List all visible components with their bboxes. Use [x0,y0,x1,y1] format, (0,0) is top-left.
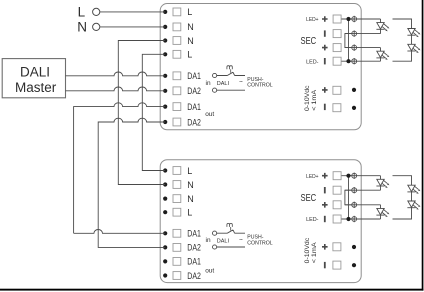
U1 polarity plus 0-10V [322,87,328,93]
U2 wire SEC- row2 [345,189,381,191]
U2 crimp terminal row2 [352,187,357,193]
LED string 4 wire top [393,176,412,186]
U2 polarity plus 0-10V [322,244,328,250]
U1 polarity minus SEC2 [324,58,326,64]
svg-text:SEC: SEC [301,35,317,47]
S2 wire and contact lever [217,230,245,233]
svg-text:SEC: SEC [301,192,317,204]
LED D5 [376,179,389,188]
frame right bar [422,0,424,291]
LED D2 string wire [380,48,382,62]
LED D7 [407,185,420,194]
svg-text:L: L [187,7,192,17]
svg-text:LED+: LED+ [306,174,319,180]
S2 push actuator stem [230,227,232,231]
svg-text:L: L [78,4,86,19]
U2 terminal N (pin 2) [163,180,194,190]
U2 polarity minus SEC1 [324,187,326,193]
S1 push actuator cap [227,66,232,70]
U1 junction LED- [346,59,350,63]
U1 terminal DA1 in [163,71,201,81]
S1 DA2 wire [217,89,245,91]
U2 crimp terminal row4 [352,216,357,222]
svg-text:DA2: DA2 [187,86,201,96]
svg-text:N: N [77,19,87,34]
U2 SEC square terminals [333,172,341,180]
LED D6 [376,208,389,217]
U2 terminal L (pin 1) [163,166,192,176]
U2 crimp terminal row1 [352,173,357,179]
S2 push actuator cap [227,223,232,227]
U2 bus wire rows1-4 [348,176,350,219]
LED D3-D4 link wire [411,35,413,44]
U1 wire LED+ row [342,18,381,20]
svg-text:DALI: DALI [20,64,50,79]
wire DALI DA1 U1 out to U2 in (hops) [74,103,166,234]
svg-text:L: L [187,166,192,176]
U1 terminal L loop-out (pin 4) [163,50,192,60]
U1 junction LED+ [346,17,350,21]
U1 terminal DA2 out [163,117,201,127]
LED string 2 wire bottom [393,51,412,61]
wire DALI DA2 U1 out to U2 in (hops) [98,118,165,247]
U2 polarity plus SEC2 [322,202,328,208]
U1 wire SEC- row2 [345,33,381,35]
U1 bracket wire rows2-3 [345,34,352,48]
S2 node DA2 [213,245,217,249]
LED D3 [407,29,420,38]
U2 crimp terminal row3 [352,202,357,208]
svg-text:~: ~ [239,236,243,243]
wire DALI DA1 master to U1 (hops) [66,72,166,76]
U2 bracket wire rows2-3 [345,190,352,205]
svg-text:DA2: DA2 [187,271,201,281]
frame bottom bar [0,289,423,291]
svg-text:Master: Master [15,80,57,95]
U1 polarity minus 0-10V [324,104,326,110]
U1 bus wire rows1-4 [348,19,350,61]
U1 polarity plus SEC1 [322,16,328,22]
U1 crimp terminal row2 [352,30,357,36]
U2 terminal L loop-out (pin 4) [163,208,192,218]
svg-text:in: in [206,237,211,244]
U2 wire LED+ row [342,175,381,177]
svg-text:~: ~ [239,79,243,86]
LED D1 string wire [380,19,382,34]
U2 0-10V dot terminals [352,245,356,249]
S1 node DA1 [213,73,217,77]
DALI Master box [2,59,65,98]
U1 terminal L (pin 1) [163,7,192,17]
svg-text:out: out [205,268,214,275]
LED D1 [376,23,389,32]
mains terminal N [93,23,100,30]
U2 terminal N loop-out (pin 3) [163,194,194,204]
U2 terminal DA2 in [163,243,201,253]
svg-text:N: N [187,22,194,32]
U1 DALI push-control switch S1 [213,66,273,93]
LED D5 string wire [380,176,382,191]
svg-text:DA1: DA1 [187,71,201,81]
U1 wire LED- row [342,60,381,62]
S1 push actuator stem [230,69,232,73]
svg-text:CONTROL: CONTROL [247,240,272,246]
U1 crimp terminal row3 [352,44,357,50]
U1 terminal DA1 out [163,102,201,112]
svg-text:CONTROL: CONTROL [247,83,272,89]
U2 terminal DA1 out [163,257,201,267]
U2 junction LED- [346,217,350,221]
U1 SEC square terminals [333,15,341,23]
svg-text:DA1: DA1 [187,102,201,112]
U1 wire SEC+ row3 [345,47,381,49]
LED driver U1 enclosure [160,4,361,130]
U1 terminal N loop-out (pin 3) [163,36,194,46]
U2 DALI push-control switch S2 [213,223,273,249]
S1 node DA2 [213,88,217,92]
svg-text:L: L [187,50,192,60]
U1 terminal DA2 in [163,86,201,96]
svg-text:N: N [187,180,194,190]
U2 0-10V square terminals [333,243,341,251]
svg-text:DA1: DA1 [187,229,201,239]
S1 wire and contact lever [217,72,245,75]
svg-text:in: in [206,80,211,87]
U1 polarity plus SEC2 [322,45,328,51]
wire DALI DA2 master to U1 (hops) [66,87,166,91]
svg-text:N: N [187,194,194,204]
U2 wire LED- row [342,218,381,220]
svg-text:DA2: DA2 [187,243,201,253]
LED D7-D8 link wire [411,192,413,201]
U1 0-10V square terminals [333,86,341,94]
svg-text:N: N [187,36,194,46]
svg-text:DALI: DALI [217,239,230,245]
wire mains N to U1 [100,26,165,28]
svg-text:DA2: DA2 [187,117,201,127]
S2 DA2 wire [217,246,245,248]
svg-text:DA1: DA1 [187,257,201,267]
U2 terminal DA1 in [163,229,201,239]
mains terminal L [93,8,100,15]
LED D6 string wire [380,205,382,219]
U1 crimp terminal row1 [352,16,357,22]
U2 terminal DA2 out [163,271,201,281]
LED driver U2 enclosure [160,160,361,283]
LED D2 [376,51,389,60]
LED D8 [407,201,420,210]
LED string 2 wire top [393,19,412,29]
svg-text:out: out [205,111,214,118]
U1 terminal N (pin 2) [163,22,194,32]
U2 polarity minus 0-10V [324,262,326,268]
wire mains L to U1 [100,11,165,13]
U1 crimp terminal row4 [352,58,357,64]
U2 wire SEC+ row3 [345,204,381,206]
U2 junction LED+ [346,174,350,178]
svg-text:LED-: LED- [306,59,318,65]
U1 polarity minus SEC1 [324,30,326,36]
svg-text:< 1mA: < 1mA [311,241,318,263]
U2 polarity plus SEC1 [322,173,328,179]
LED string 4 wire bottom [393,208,412,219]
svg-text:LED+: LED+ [306,17,319,23]
svg-text:< 1mA: < 1mA [311,89,318,111]
wire N loop U1 to U2 [118,41,165,185]
svg-text:L: L [187,208,192,218]
U1 0-10V dot terminals [352,88,356,92]
LED D4 [407,44,420,53]
wire L loop U1 to U2 [142,54,165,170]
svg-text:DALI: DALI [217,81,230,87]
svg-text:LED-: LED- [306,217,318,223]
U2 polarity minus SEC2 [324,216,326,222]
S2 node DA1 [213,231,217,235]
